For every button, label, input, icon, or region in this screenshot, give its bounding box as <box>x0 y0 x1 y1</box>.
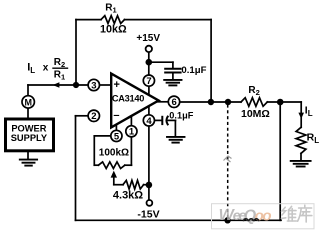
svg-text:5: 5 <box>114 131 120 142</box>
svg-text:3: 3 <box>91 80 96 91</box>
svg-text:1: 1 <box>129 127 135 138</box>
svg-text:6: 6 <box>171 97 176 108</box>
svg-text:4: 4 <box>146 116 152 127</box>
svg-text:POWER: POWER <box>11 123 46 133</box>
svg-text:+: + <box>113 79 119 91</box>
svg-text:x: x <box>43 63 49 74</box>
svg-text:–: – <box>113 110 119 122</box>
svg-text:CA3140: CA3140 <box>112 93 144 103</box>
svg-text:0.1μF: 0.1μF <box>169 111 193 121</box>
svg-text:100kΩ: 100kΩ <box>99 147 129 158</box>
svg-text:0.1μF: 0.1μF <box>181 65 206 76</box>
svg-text:4.3kΩ: 4.3kΩ <box>113 190 143 202</box>
svg-text:o: o <box>262 207 271 224</box>
svg-text:+15V: +15V <box>136 33 160 44</box>
svg-text:-15V: -15V <box>137 208 159 220</box>
svg-text:M: M <box>25 97 33 107</box>
svg-text:2: 2 <box>91 111 96 122</box>
svg-text:10MΩ: 10MΩ <box>241 108 270 120</box>
svg-text:10kΩ: 10kΩ <box>100 24 127 36</box>
svg-text:SUPPLY: SUPPLY <box>11 133 48 143</box>
svg-text:7: 7 <box>146 76 151 87</box>
